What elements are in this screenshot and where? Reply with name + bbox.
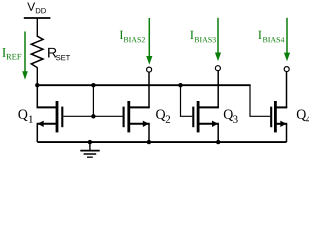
current arrow IBIAS3: [215, 18, 221, 61]
power rail VDD bar: [24, 17, 51, 19]
wire IBIAS3 terminal to Q3 drain: [217, 71, 219, 109]
node A : top rail from Q1 drain to gate bus drops: [37, 84, 250, 86]
ground: [80, 142, 99, 157]
label IBIAS4: [258, 31, 284, 43]
wire gate bus Q1 to Q2: [63, 115, 122, 117]
wire bottom source rail: [37, 141, 286, 143]
junction dot Q2 source: [147, 140, 151, 144]
junction dot rail to Q3 gate drop: [178, 83, 182, 87]
terminal circle IBIAS3: [215, 66, 220, 71]
terminal circle IBIAS2: [147, 67, 152, 72]
terminal circle IBIAS4: [284, 67, 289, 72]
junction dot on Q1 Q2 gate wire: [91, 114, 95, 118]
current arrow IBIAS4: [284, 18, 290, 61]
current arrow IREF: [22, 32, 28, 80]
resistor RSET: [31, 36, 43, 67]
label Q2: [156, 110, 170, 123]
wire gate drop Q4: [250, 85, 270, 116]
transistor Q1: [37, 85, 63, 142]
junction dot ground connection: [88, 140, 92, 144]
label Q3: [224, 110, 238, 123]
label VDD: [27, 3, 46, 14]
transistor Q2: [124, 101, 150, 142]
transistor Q4: [271, 101, 287, 142]
junction dot Q3 source: [216, 140, 220, 144]
label IBIAS2: [120, 31, 145, 43]
wire gate drop for Q1 Q2: [92, 85, 94, 116]
junction dot rail to Q1 Q2 gate drop: [91, 83, 95, 87]
label RSET: [48, 48, 70, 60]
label Q4: [297, 110, 311, 123]
label IREF: [2, 48, 21, 59]
transistor Q3: [193, 101, 219, 142]
wire IBIAS4 terminal to Q4 drain: [286, 72, 288, 109]
wire gate drop Q3: [181, 85, 193, 116]
junction dot node A at resistor and Q1 drain: [35, 83, 39, 87]
current arrow IBIAS2: [146, 18, 152, 65]
wire VDD bar to resistor top: [36, 18, 38, 37]
label IBIAS3: [190, 31, 216, 43]
wire resistor bottom to node A: [36, 67, 38, 85]
label Q1: [18, 110, 32, 123]
wire IBIAS2 terminal to Q2 drain: [148, 72, 150, 108]
